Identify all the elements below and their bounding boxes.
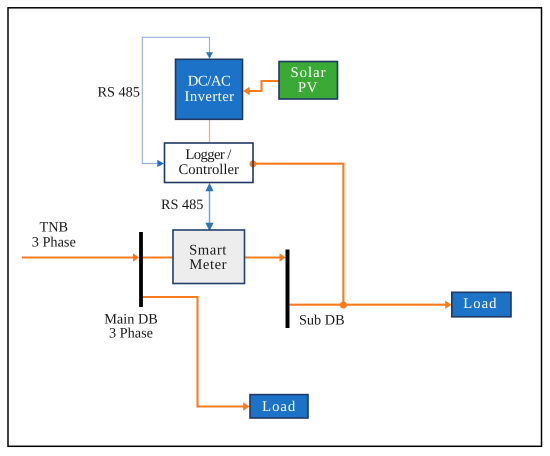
wire: Sub DB to Load right (orange) [290,304,446,306]
busbar Main DB [139,232,143,307]
wire: Smart Meter to Sub DB (orange) [245,256,281,258]
block Solar PV [279,62,338,100]
wire: RS485 loop logger-to-inverter (light blue) [142,37,209,163]
svg-text:Controller: Controller [179,162,239,178]
block DC/AC Inverter [176,59,243,119]
junction dot at logger right [250,160,257,167]
svg-text:RS 485: RS 485 [161,197,204,213]
arrowhead into Sub DB bar [280,253,286,261]
svg-text:Inverter: Inverter [185,89,235,105]
svg-text:Solar: Solar [290,65,326,81]
svg-text:Meter: Meter [189,257,227,273]
block Load (bottom) [250,395,308,418]
arrowhead into inverter top [206,52,213,59]
arrowhead down into smart meter top [205,223,213,231]
wire: Solar PV to inverter (orange) [250,81,280,91]
arrowhead into bottom Load [243,402,249,410]
wire: inverter bottom to logger top (thin light orange) [209,120,211,143]
block Smart Meter [173,230,245,284]
wire: Main DB to Smart Meter (orange) [143,256,174,258]
arrowhead up into logger bottom [205,183,213,191]
arrowhead into Main DB bar [133,253,139,261]
wire: TNB feed to Main DB (orange) [22,256,134,258]
svg-text:3 Phase: 3 Phase [32,234,76,250]
svg-text:DC/AC: DC/AC [188,74,231,90]
svg-text:Logger /: Logger / [185,147,232,163]
wire: logger right to junction, down to sub feeder (orange) [254,164,344,305]
busbar Sub DB [286,250,290,329]
arrowhead into logger left [157,160,164,167]
wire: Main DB branch down to bottom Load (orange) [143,297,244,407]
svg-text:Load: Load [463,296,497,312]
svg-text:RS 485: RS 485 [97,85,140,101]
svg-text:PV: PV [298,80,318,96]
arrowhead into right Load [445,301,451,309]
block Logger / Controller [165,143,254,183]
svg-text:Sub DB: Sub DB [299,313,345,329]
wire: RS485 double arrow logger-smart meter (blue) [209,190,211,224]
junction dot on sub feeder [340,301,347,308]
svg-text:3 Phase: 3 Phase [109,325,153,341]
svg-text:TNB: TNB [39,219,68,235]
arrowhead into inverter right [243,87,249,95]
svg-text:Load: Load [262,399,296,415]
block Load (right) [452,292,511,317]
